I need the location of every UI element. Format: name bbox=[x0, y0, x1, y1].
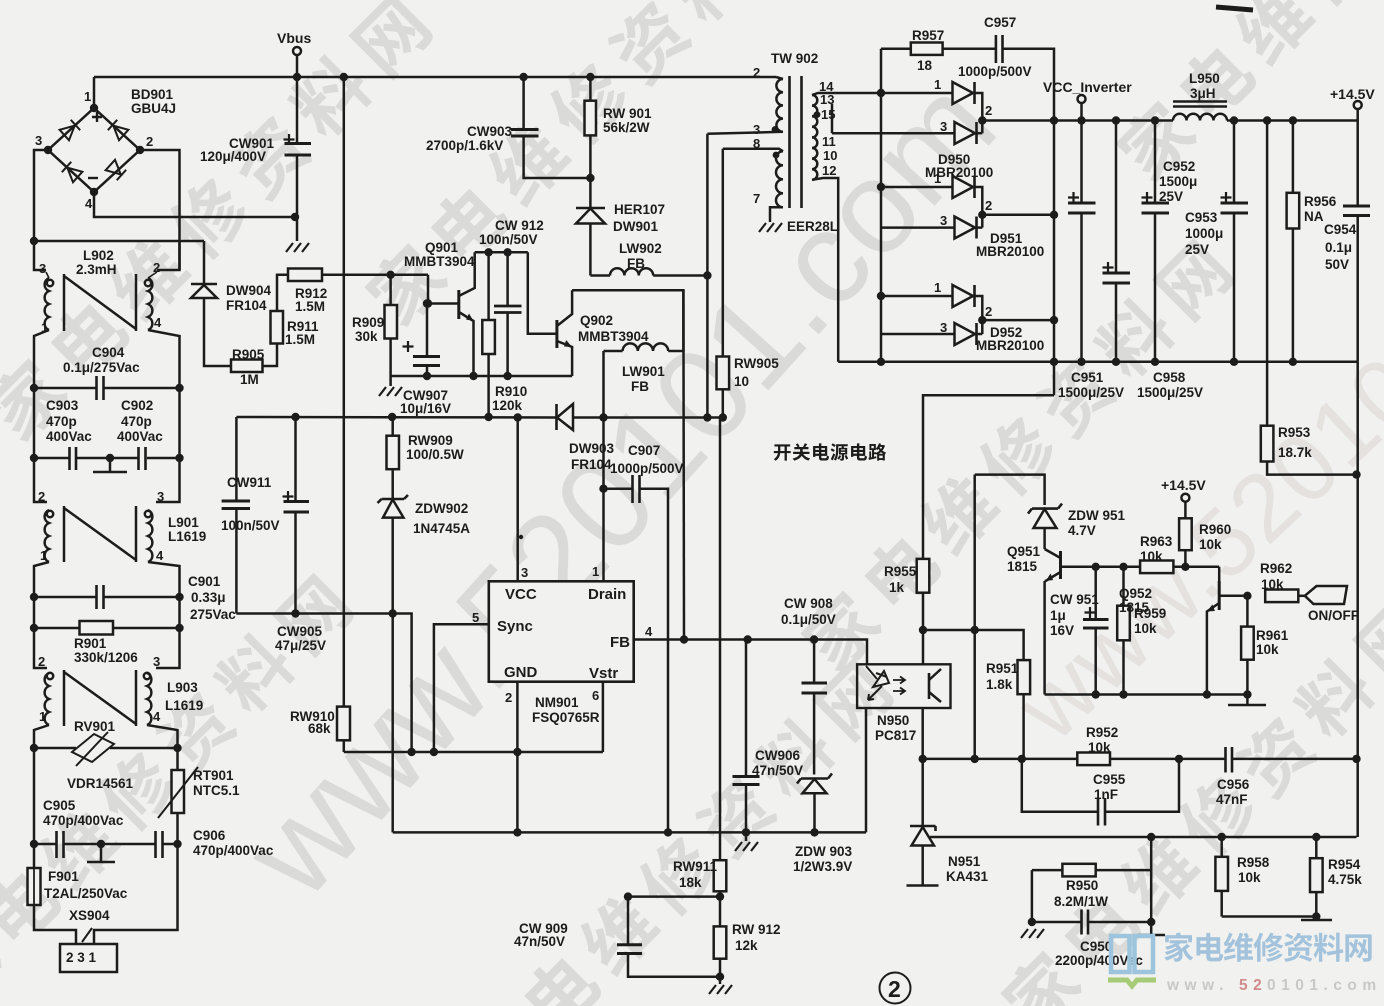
svg-text:4.7V: 4.7V bbox=[1068, 523, 1096, 538]
svg-text:CW 951: CW 951 bbox=[1050, 592, 1099, 607]
capacitor C953 bbox=[1185, 121, 1248, 362]
svg-text:3: 3 bbox=[39, 261, 46, 276]
transistor Q901 bbox=[404, 240, 478, 380]
diode D952 top bbox=[881, 280, 982, 334]
transformer TW902 core bbox=[790, 76, 802, 208]
svg-text:NM901: NM901 bbox=[535, 695, 579, 710]
svg-text:Drain: Drain bbox=[588, 586, 626, 603]
svg-text:FB: FB bbox=[627, 256, 645, 271]
svg-text:LW902: LW902 bbox=[619, 241, 662, 256]
svg-text:1M: 1M bbox=[240, 372, 259, 387]
svg-text:2: 2 bbox=[146, 134, 153, 149]
wire feedback line y=758.9 bbox=[923, 758, 1357, 761]
capacitor CW901 bbox=[200, 77, 311, 241]
svg-text:30k: 30k bbox=[355, 329, 378, 344]
resistor R955 bbox=[884, 559, 929, 664]
svg-text:10k: 10k bbox=[1238, 870, 1261, 885]
svg-text:1.5M: 1.5M bbox=[285, 332, 315, 347]
svg-text:3: 3 bbox=[521, 565, 528, 580]
wire VCC output rail y=120.5 bbox=[1054, 119, 1358, 122]
resistor RW909 bbox=[387, 417, 465, 499]
svg-text:CW 912: CW 912 bbox=[495, 218, 544, 233]
svg-text:2700p/1.6kV: 2700p/1.6kV bbox=[426, 138, 503, 153]
svg-text:2.3mH: 2.3mH bbox=[76, 262, 117, 277]
capacitor C904 bbox=[30, 345, 184, 400]
svg-text:+14.5V: +14.5V bbox=[1161, 477, 1206, 493]
capacitor CW903 bbox=[426, 77, 590, 178]
wire x=720 RW911 line bbox=[719, 418, 722, 861]
svg-text:www.: www. bbox=[1166, 977, 1229, 994]
wire VCC pin3 bbox=[516, 418, 519, 582]
capacitor CW909 bbox=[514, 897, 720, 977]
svg-text:R957: R957 bbox=[912, 28, 944, 43]
capacitor C958 bbox=[1103, 121, 1204, 401]
wire Q951 block bottom rail bbox=[1045, 693, 1248, 696]
svg-text:RW911: RW911 bbox=[673, 859, 718, 874]
svg-text:N951: N951 bbox=[948, 854, 981, 869]
svg-text:120k: 120k bbox=[492, 398, 523, 413]
svg-text:1: 1 bbox=[592, 564, 599, 579]
resistor R910 bbox=[482, 248, 527, 421]
junction dots on bus bbox=[293, 73, 595, 81]
svg-text:3: 3 bbox=[157, 489, 164, 504]
wire bridge pin1 to bus bbox=[93, 77, 96, 108]
svg-text:2: 2 bbox=[985, 103, 992, 118]
svg-text:VDR14561: VDR14561 bbox=[67, 776, 134, 791]
svg-text:470p: 470p bbox=[121, 414, 152, 429]
svg-text:FB: FB bbox=[631, 379, 649, 394]
capacitor C957 bbox=[958, 15, 1054, 395]
svg-text:470p/400Vac: 470p/400Vac bbox=[193, 843, 274, 858]
svg-text:C954: C954 bbox=[1324, 222, 1357, 237]
svg-text:1: 1 bbox=[84, 89, 91, 104]
svg-text:50V: 50V bbox=[1325, 257, 1349, 272]
svg-text:1: 1 bbox=[41, 320, 48, 335]
svg-text:16V: 16V bbox=[1050, 623, 1074, 638]
label switching supply bbox=[774, 443, 886, 460]
svg-text:N950: N950 bbox=[877, 713, 909, 728]
svg-text:1000p/500V: 1000p/500V bbox=[610, 461, 684, 476]
svg-text:1.5M: 1.5M bbox=[295, 299, 325, 314]
ground at C950 loop bbox=[1021, 929, 1044, 938]
wire bridge pin4 to CW901 bottom bbox=[94, 192, 295, 217]
resistor R951 bbox=[986, 660, 1030, 759]
svg-text:8: 8 bbox=[753, 136, 760, 151]
capacitor C950 bbox=[1055, 910, 1143, 969]
svg-text:ZDW 951: ZDW 951 bbox=[1068, 508, 1126, 523]
diode DW904 bbox=[191, 241, 272, 366]
resistor R901 bbox=[30, 597, 184, 665]
svg-text:C953: C953 bbox=[1185, 210, 1218, 225]
svg-text:10k: 10k bbox=[1261, 577, 1284, 592]
wire bridge pin3 to L902 node bbox=[34, 150, 48, 241]
svg-text:1N4745A: 1N4745A bbox=[413, 521, 470, 536]
inductor L901 common mode choke bbox=[34, 458, 206, 597]
resistor RW910 bbox=[290, 707, 350, 752]
svg-text:DW901: DW901 bbox=[613, 219, 659, 234]
svg-text:2: 2 bbox=[985, 304, 992, 319]
svg-text:2: 2 bbox=[38, 489, 45, 504]
svg-text:1500μ/25V: 1500μ/25V bbox=[1137, 385, 1203, 400]
svg-text:KA431: KA431 bbox=[946, 869, 989, 884]
svg-text:100/0.5W: 100/0.5W bbox=[406, 447, 464, 462]
svg-text:CW906: CW906 bbox=[755, 748, 801, 763]
ground between C905/C906 bbox=[87, 844, 115, 862]
svg-text:15: 15 bbox=[821, 107, 835, 122]
svg-text:+14.5V: +14.5V bbox=[1330, 86, 1375, 102]
svg-text:C957: C957 bbox=[984, 15, 1016, 30]
wire Drain line x=603.5 bbox=[602, 351, 605, 581]
svg-text:C904: C904 bbox=[92, 345, 125, 360]
resistor R956 bbox=[1287, 121, 1337, 362]
op-amp U1 IC NM901 FSQ0765R box bbox=[472, 564, 653, 725]
wire Vstr pin6 bbox=[602, 682, 605, 752]
capacitor C905 bbox=[34, 748, 124, 858]
svg-text:4.75k: 4.75k bbox=[1328, 872, 1362, 887]
svg-text:VCC_Inverter: VCC_Inverter bbox=[1043, 79, 1132, 95]
transformer TW902 primary winding pin2-3 bbox=[707, 51, 818, 137]
inductor LW901 loop bbox=[572, 290, 683, 394]
svg-text:2: 2 bbox=[38, 654, 45, 669]
thermistor RT901 bbox=[158, 748, 240, 844]
svg-text:1nF: 1nF bbox=[1094, 787, 1118, 802]
svg-text:Q902: Q902 bbox=[580, 313, 613, 328]
svg-text:MBR20100: MBR20100 bbox=[976, 338, 1044, 353]
svg-text:C903: C903 bbox=[46, 398, 79, 413]
capacitor CW912 bbox=[479, 218, 544, 380]
transistor Q951 bbox=[1007, 544, 1096, 695]
svg-text:1: 1 bbox=[39, 709, 46, 724]
svg-text:470p: 470p bbox=[46, 414, 77, 429]
svg-text:HER107: HER107 bbox=[614, 202, 665, 217]
svg-text:C905: C905 bbox=[43, 798, 76, 813]
svg-text:Sync: Sync bbox=[497, 618, 533, 635]
bridge rectifier BD901 bbox=[35, 87, 176, 211]
svg-text:C952: C952 bbox=[1163, 159, 1195, 174]
resistor R958 bbox=[1215, 837, 1269, 917]
svg-text:RW905: RW905 bbox=[734, 356, 779, 371]
resistor R909 bbox=[352, 271, 397, 376]
svg-text:L1619: L1619 bbox=[165, 698, 203, 713]
capacitor C956 bbox=[1216, 747, 1250, 807]
svg-text:C907: C907 bbox=[628, 443, 660, 458]
capacitor CW908 bbox=[781, 596, 836, 775]
svg-text:2: 2 bbox=[753, 65, 760, 80]
svg-text:25V: 25V bbox=[1159, 189, 1183, 204]
junction dots on y417 line bbox=[291, 413, 607, 422]
wire y752 line bbox=[344, 751, 603, 754]
svg-text:MBR20100: MBR20100 bbox=[976, 244, 1044, 259]
svg-text:3: 3 bbox=[35, 133, 42, 148]
svg-text:C956: C956 bbox=[1217, 777, 1250, 792]
svg-text:2: 2 bbox=[505, 690, 512, 705]
zener ZDW951 bbox=[1028, 504, 1126, 549]
wire KA431 ref line y=837 bbox=[930, 836, 1357, 839]
wire right rail x=1357.7 bbox=[1356, 362, 1359, 837]
capacitor CW907 bbox=[400, 299, 451, 416]
connector XS904 bbox=[60, 844, 178, 972]
svg-text:68k: 68k bbox=[308, 721, 331, 736]
svg-text:1.8k: 1.8k bbox=[986, 677, 1013, 692]
svg-text:10μ/16V: 10μ/16V bbox=[400, 401, 451, 416]
svg-text:C955: C955 bbox=[1093, 772, 1126, 787]
capacitor C901 bbox=[30, 574, 236, 622]
wire emitter/ground line y376 bbox=[391, 375, 572, 378]
svg-text:RW909: RW909 bbox=[408, 433, 453, 448]
inductor L903 common mode choke bbox=[34, 628, 203, 748]
wire Q901 top rail bbox=[475, 251, 528, 254]
svg-text:DW903: DW903 bbox=[569, 441, 615, 456]
svg-text:18: 18 bbox=[917, 58, 933, 73]
svg-text:100n/50V: 100n/50V bbox=[479, 232, 538, 247]
svg-text:3: 3 bbox=[940, 119, 947, 134]
svg-text:L901: L901 bbox=[168, 515, 199, 530]
svg-text:3: 3 bbox=[753, 122, 760, 137]
svg-text:C902: C902 bbox=[121, 398, 153, 413]
svg-text:R960: R960 bbox=[1199, 522, 1231, 537]
svg-text:F901: F901 bbox=[48, 869, 79, 884]
svg-text:Q951: Q951 bbox=[1007, 544, 1041, 559]
wire D952 output tap bbox=[982, 319, 1054, 322]
svg-text:8.2M/1W: 8.2M/1W bbox=[1054, 894, 1108, 909]
svg-text:C906: C906 bbox=[193, 828, 226, 843]
svg-text:R956: R956 bbox=[1304, 194, 1337, 209]
svg-text:Vbus: Vbus bbox=[277, 30, 311, 46]
svg-text:10: 10 bbox=[734, 374, 749, 389]
svg-text:1: 1 bbox=[934, 171, 941, 186]
svg-text:FB: FB bbox=[610, 634, 630, 651]
resistor R957 bbox=[881, 28, 996, 73]
svg-text:7: 7 bbox=[753, 191, 760, 206]
svg-text:NTC5.1: NTC5.1 bbox=[193, 783, 240, 798]
ground below RW912 bbox=[719, 977, 722, 984]
svg-text:0.1μ/275Vac: 0.1μ/275Vac bbox=[63, 360, 140, 375]
wire primary ground rail y=832.4 bbox=[393, 831, 866, 834]
svg-text:2 3 1: 2 3 1 bbox=[66, 950, 97, 965]
svg-text:C951: C951 bbox=[1071, 370, 1104, 385]
wire VCC to R955 bbox=[923, 395, 1054, 559]
resistor R953 bbox=[1261, 121, 1357, 475]
svg-text:MMBT3904: MMBT3904 bbox=[578, 329, 649, 344]
resistor R962 bbox=[1260, 561, 1305, 602]
svg-text:LW901: LW901 bbox=[622, 364, 665, 379]
wire opto LED cathode down bbox=[865, 708, 868, 832]
svg-text:EER28L: EER28L bbox=[787, 219, 838, 234]
svg-text:VCC: VCC bbox=[505, 586, 537, 603]
svg-text:275Vac: 275Vac bbox=[190, 607, 236, 622]
svg-text:GND: GND bbox=[504, 664, 538, 681]
wire top of Q951 block bbox=[975, 475, 1045, 505]
svg-text:47μ/25V: 47μ/25V bbox=[275, 638, 326, 653]
ground below CW901 bbox=[286, 243, 309, 252]
svg-text:Q952: Q952 bbox=[1119, 586, 1152, 601]
capacitor C903 bbox=[34, 388, 110, 470]
svg-text:R909: R909 bbox=[352, 315, 384, 330]
transformer TW902 secondary winding bbox=[812, 79, 881, 362]
resistor R954 bbox=[1310, 837, 1362, 917]
resistor RW905 bbox=[717, 149, 780, 422]
svg-text:1: 1 bbox=[934, 77, 941, 92]
zener ZDW903 bbox=[793, 774, 853, 875]
svg-text:10k: 10k bbox=[1088, 740, 1111, 755]
svg-text:3: 3 bbox=[153, 654, 160, 669]
svg-text:0.33μ: 0.33μ bbox=[191, 590, 226, 605]
transistor Q952 bbox=[1119, 567, 1247, 695]
logo bottom right bbox=[1108, 932, 1382, 994]
capacitor C951 bbox=[1058, 121, 1124, 401]
wire DW903 line y=417 bbox=[236, 416, 556, 419]
svg-text:0.1μ: 0.1μ bbox=[1325, 240, 1352, 255]
diode D950 top bbox=[881, 77, 982, 133]
svg-text:MMBT3904: MMBT3904 bbox=[404, 254, 475, 269]
svg-text:ZDW902: ZDW902 bbox=[415, 501, 468, 516]
svg-text:56k/2W: 56k/2W bbox=[603, 120, 650, 135]
svg-text:1000μ: 1000μ bbox=[1185, 226, 1223, 241]
svg-text:1500μ: 1500μ bbox=[1159, 174, 1197, 189]
node line y241 bbox=[34, 240, 204, 243]
svg-text:T2AL/250Vac: T2AL/250Vac bbox=[44, 886, 128, 901]
svg-text:1: 1 bbox=[934, 280, 941, 295]
svg-text:5: 5 bbox=[472, 610, 479, 625]
svg-text:25V: 25V bbox=[1185, 242, 1209, 257]
resistor R959 bbox=[1117, 567, 1166, 695]
wire GND pin down to rail bbox=[516, 752, 519, 832]
svg-text:FR104: FR104 bbox=[571, 457, 612, 472]
svg-text:4: 4 bbox=[85, 196, 93, 211]
wire GND pin2 bbox=[516, 682, 519, 752]
transformer TW902 primary winding pin8-7 bbox=[723, 136, 838, 234]
diode D951 bottom bbox=[881, 198, 1044, 259]
svg-text:1500μ/25V: 1500μ/25V bbox=[1058, 385, 1124, 400]
svg-text:4: 4 bbox=[645, 624, 653, 639]
svg-text:ZDW 903: ZDW 903 bbox=[795, 844, 853, 859]
svg-text:CW905: CW905 bbox=[277, 624, 323, 639]
capacitor CW906 bbox=[733, 640, 804, 833]
svg-text:R955: R955 bbox=[884, 564, 917, 579]
svg-text:400Vac: 400Vac bbox=[117, 429, 163, 444]
svg-text:0101.com: 0101.com bbox=[1267, 977, 1382, 994]
svg-text:3: 3 bbox=[940, 213, 947, 228]
wire top Vbus bus bbox=[94, 76, 776, 79]
node +14.5V control bbox=[1161, 477, 1206, 518]
svg-text:47n/50V: 47n/50V bbox=[752, 763, 803, 778]
svg-text:18.7k: 18.7k bbox=[1278, 445, 1312, 460]
wire Sync pin5 bbox=[434, 624, 489, 752]
resistor RW901 bbox=[585, 77, 653, 182]
wire stub below R950 loop bbox=[1138, 922, 1165, 935]
svg-text:400Vac: 400Vac bbox=[46, 429, 92, 444]
wire R958/R954 bottom bbox=[1222, 915, 1317, 918]
resistor RW911 bbox=[673, 859, 726, 897]
svg-text:1k: 1k bbox=[889, 580, 905, 595]
resistor R963 bbox=[1140, 534, 1219, 573]
svg-text:4: 4 bbox=[153, 709, 161, 724]
svg-text:18k: 18k bbox=[679, 875, 702, 890]
resistor R912 bbox=[288, 269, 428, 315]
svg-text:R910: R910 bbox=[495, 384, 527, 399]
capacitor CW905 bbox=[275, 417, 326, 653]
wire x=684 LW901 to FB bbox=[682, 290, 685, 639]
svg-text:Q901: Q901 bbox=[425, 240, 459, 255]
svg-text:1815: 1815 bbox=[1119, 600, 1150, 615]
svg-text:2: 2 bbox=[985, 198, 992, 213]
svg-text:R901: R901 bbox=[74, 636, 107, 651]
ground at CW907 line bbox=[389, 376, 392, 386]
capacitor CW951 bbox=[1050, 567, 1109, 695]
capacitor C955 loop bbox=[1022, 759, 1179, 826]
svg-text:FSQ0765R: FSQ0765R bbox=[532, 710, 600, 725]
svg-text:1000p/500V: 1000p/500V bbox=[958, 64, 1032, 79]
svg-text:R958: R958 bbox=[1237, 855, 1270, 870]
wire D950 output tap bbox=[982, 119, 1054, 122]
capacitor C906 bbox=[30, 828, 274, 858]
capacitor C902 bbox=[30, 388, 184, 470]
svg-text:3μH: 3μH bbox=[1190, 86, 1216, 101]
wire ground rail y=613.5 bbox=[236, 614, 411, 753]
svg-text:L1619: L1619 bbox=[168, 529, 206, 544]
svg-text:1/2W3.9V: 1/2W3.9V bbox=[793, 859, 852, 874]
svg-text:C958: C958 bbox=[1153, 370, 1186, 385]
svg-text:RV901: RV901 bbox=[74, 719, 116, 734]
node Vbus bbox=[277, 30, 311, 77]
node +14.5V top bbox=[1330, 86, 1375, 121]
svg-text:R905: R905 bbox=[232, 347, 265, 362]
diode D950 bottom bbox=[832, 103, 993, 180]
svg-text:12k: 12k bbox=[735, 938, 758, 953]
svg-text:ON/OFF: ON/OFF bbox=[1308, 608, 1359, 623]
optocoupler N950 PC817 bbox=[857, 664, 950, 743]
svg-text:10k: 10k bbox=[1134, 621, 1157, 636]
svg-text:R961: R961 bbox=[1256, 628, 1289, 643]
wire x=974.7 vertical bbox=[973, 475, 976, 759]
svg-text:52: 52 bbox=[1239, 977, 1267, 994]
node ON/OFF connector bbox=[1305, 586, 1359, 623]
svg-text:11: 11 bbox=[822, 134, 836, 149]
svg-text:CW 908: CW 908 bbox=[784, 596, 833, 611]
svg-text:47nF: 47nF bbox=[1216, 792, 1248, 807]
svg-text:R963: R963 bbox=[1140, 534, 1173, 549]
svg-text:RW 901: RW 901 bbox=[603, 106, 652, 121]
svg-text:R950: R950 bbox=[1066, 878, 1098, 893]
svg-text:RW 912: RW 912 bbox=[732, 922, 781, 937]
svg-text:1μ: 1μ bbox=[1050, 608, 1066, 623]
svg-text:PC817: PC817 bbox=[875, 728, 916, 743]
svg-text:L902: L902 bbox=[83, 248, 114, 263]
svg-text:L950: L950 bbox=[1189, 71, 1220, 86]
wire R955 node to R951 bbox=[923, 630, 1024, 660]
svg-text:NA: NA bbox=[1304, 209, 1324, 224]
svg-text:120μ/400V: 120μ/400V bbox=[200, 149, 266, 164]
svg-text:6: 6 bbox=[592, 688, 599, 703]
diode D952 bottom bbox=[881, 304, 1044, 353]
capacitor C907 bbox=[599, 443, 683, 832]
wire base line y=566.8 bbox=[1096, 566, 1140, 569]
svg-text:TW 902: TW 902 bbox=[771, 51, 818, 66]
svg-text:R952: R952 bbox=[1086, 725, 1118, 740]
svg-text:C901: C901 bbox=[188, 574, 221, 589]
varistor RV901 bbox=[30, 719, 182, 791]
resistor R911 bbox=[271, 275, 320, 347]
svg-text:C950: C950 bbox=[1080, 939, 1112, 954]
wire D951 output tap bbox=[982, 214, 1054, 217]
wire RW911/RW912 node bbox=[628, 895, 720, 898]
resistor R960 bbox=[1179, 518, 1231, 571]
svg-text:10k: 10k bbox=[1199, 537, 1222, 552]
diode D951 top bbox=[881, 171, 982, 228]
svg-text:1: 1 bbox=[40, 548, 47, 563]
svg-text:12: 12 bbox=[822, 163, 836, 178]
svg-text:Vstr: Vstr bbox=[589, 665, 618, 682]
